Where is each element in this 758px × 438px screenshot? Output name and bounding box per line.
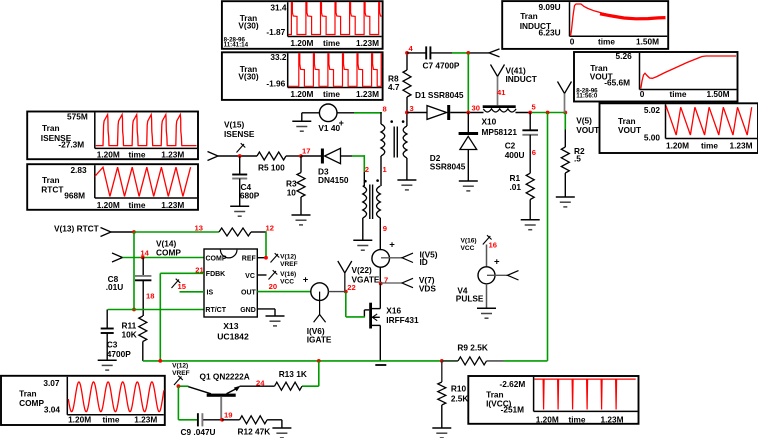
svg-text:Tran: Tran: [520, 11, 538, 21]
svg-text:VREF: VREF: [172, 370, 190, 377]
resistor node13-node12: [219, 228, 251, 236]
svg-text:VOUT: VOUT: [576, 125, 599, 135]
label V(14) COMP: [156, 238, 181, 257]
svg-text:1.23M: 1.23M: [161, 200, 184, 210]
svg-text:V(16): V(16): [280, 271, 296, 278]
svg-text:MP58121: MP58121: [482, 127, 518, 137]
svg-text:11:41:14: 11:41:14: [224, 42, 249, 49]
wire node 3 to D1: [407, 112, 427, 114]
svg-text:400U: 400U: [505, 150, 525, 160]
svg-text:6.23U: 6.23U: [538, 27, 560, 37]
svg-text:-1.87: -1.87: [266, 27, 285, 37]
node 19: [220, 410, 232, 421]
svg-text:0: 0: [570, 36, 575, 46]
wire node4 net down to node 30: [467, 53, 469, 113]
svg-text:2.83: 2.83: [70, 165, 87, 175]
svg-text:V(15): V(15): [224, 120, 245, 130]
capacitor C3: [101, 310, 114, 361]
wire I(V6) to node 22: [328, 291, 345, 293]
ground below R3: [292, 215, 311, 225]
svg-text:.01: .01: [510, 182, 522, 192]
bar below X16 source: [375, 364, 386, 366]
wire V1 to ground: [302, 113, 320, 122]
svg-text:IGATE: IGATE: [307, 334, 332, 344]
svg-text:DN4150: DN4150: [318, 175, 349, 185]
node 14: [140, 249, 149, 260]
label V1 40 +: [318, 118, 343, 133]
svg-text:COMP: COMP: [156, 247, 181, 257]
transformer lower left winding (node 2 to ground): [363, 186, 367, 218]
diode D3 DN4150: [321, 149, 324, 164]
label X13 UC1842: [217, 321, 249, 341]
svg-text:Q1 QN2222A: Q1 QN2222A: [200, 371, 250, 381]
capacitor C7: [407, 46, 452, 59]
svg-text:R10: R10: [451, 384, 467, 394]
svg-text:C2: C2: [505, 140, 516, 150]
scope inset Tran RTCT oscillator ramp plot: [27, 164, 198, 210]
wire R13 branch down: [302, 361, 319, 386]
svg-text:8: 8: [383, 105, 387, 114]
svg-text:IS: IS: [207, 290, 214, 297]
svg-text:+: +: [339, 118, 344, 128]
node 22: [344, 283, 356, 294]
probe arrow V(7) VDS: [381, 278, 413, 287]
scope inset Tran VOUT ripple plot: [600, 103, 758, 153]
svg-text:PULSE: PULSE: [456, 294, 484, 304]
capacitor C4: [232, 156, 247, 206]
node 17: [299, 147, 310, 158]
svg-text:VCC: VCC: [461, 245, 475, 252]
ground at V1 negative: [292, 121, 311, 131]
svg-text:SSR8045: SSR8045: [430, 162, 466, 172]
svg-text:16: 16: [489, 241, 497, 250]
capacitor C2: [522, 113, 538, 174]
scope inset Tran V(30) node 30 voltage plot (top): [222, 1, 383, 49]
svg-text:5.02: 5.02: [644, 105, 661, 115]
resistor R1: [526, 173, 534, 220]
svg-text:5.00: 5.00: [644, 133, 661, 143]
svg-text:UC1842: UC1842: [217, 332, 249, 342]
label X10 MP58121: [482, 117, 518, 138]
port V(14) COMP input connector: [112, 253, 123, 262]
wire VREF junction to Q1 collector: [178, 385, 188, 387]
probe marker VREF at Q1: [174, 376, 183, 385]
label V4 PULSE: [456, 285, 484, 303]
label C2 400U: [505, 140, 525, 160]
wire VREF node down to C9: [178, 386, 197, 420]
ground below C4: [230, 206, 249, 216]
probe antenna V(22) VGATE: [338, 261, 352, 292]
label V(41) INDUCT: [506, 66, 537, 84]
svg-text:1.23M: 1.23M: [134, 415, 157, 425]
svg-text:4.7: 4.7: [388, 82, 400, 92]
svg-text:.5: .5: [574, 153, 581, 163]
wire node 1: [380, 156, 382, 186]
wire node 7 to X16 drain: [379, 284, 381, 309]
transformer upper polarity dots: [390, 120, 404, 123]
junction R9/R10 divider: [440, 359, 444, 363]
svg-text:V(30): V(30): [238, 20, 259, 30]
scope inset Tran ISENSE current-sense plot: [27, 112, 198, 160]
junction FDBK rail: [158, 359, 162, 363]
svg-text:RTCT: RTCT: [41, 184, 63, 194]
label V(12) VREF at REF: [280, 253, 298, 268]
svg-text:-1.96: -1.96: [266, 78, 285, 88]
label C4 680P: [240, 182, 260, 201]
junction R13 branch: [317, 359, 321, 363]
resistor R10: [438, 361, 446, 428]
wire node 12 to REF: [251, 231, 266, 258]
svg-text:1.20M: 1.20M: [536, 414, 559, 424]
svg-text:V(12): V(12): [172, 363, 188, 370]
svg-text:9: 9: [383, 224, 387, 233]
wire V1 to node 8: [337, 112, 382, 124]
svg-text:D1 SSR8045: D1 SSR8045: [415, 90, 464, 100]
ground below R2: [556, 197, 575, 207]
wire VOUT net vertical to feedback divider: [547, 113, 549, 361]
label V(22) VGATE: [352, 265, 380, 284]
svg-text:1.50M: 1.50M: [706, 89, 729, 99]
svg-text:5.26: 5.26: [616, 51, 633, 61]
capacitor C9: [198, 413, 203, 426]
transformer upper core: [394, 127, 397, 158]
transformer lower polarity dots: [364, 179, 379, 182]
svg-text:1.23M: 1.23M: [356, 89, 379, 99]
wire X10 to node 5: [516, 112, 566, 114]
node 30: [466, 104, 480, 115]
ground below R10: [432, 428, 451, 438]
svg-text:1.23M: 1.23M: [161, 149, 184, 159]
wire node 22 to X16 gate: [346, 292, 365, 317]
svg-text:1.20M: 1.20M: [97, 149, 120, 159]
svg-text:1.20M: 1.20M: [290, 38, 313, 48]
svg-text:1.20M: 1.20M: [290, 89, 313, 99]
svg-text:30: 30: [472, 104, 480, 113]
svg-text:20: 20: [269, 282, 277, 291]
scope inset Tran COMP error-amp plot: [1, 376, 165, 425]
wire X16 source down: [379, 325, 381, 361]
svg-text:OUT: OUT: [241, 290, 257, 297]
wire R5 to node 17: [286, 155, 301, 157]
junction at REF pin: [264, 256, 268, 260]
resistor R5: [257, 152, 286, 160]
probe marker V(16) VCC at VC: [269, 270, 278, 279]
wire R9 to VOUT net: [504, 360, 548, 362]
resistor R2: [561, 113, 569, 197]
svg-text:ISENSE: ISENSE: [224, 129, 255, 139]
current probe I(V6): [303, 275, 329, 301]
wire C7 to offpage port: [452, 52, 489, 54]
transformer lower right winding (node 1 to node 9): [377, 186, 381, 218]
svg-text:VC: VC: [245, 273, 255, 280]
resistor R11: [139, 316, 147, 361]
wire D3 to node 2: [341, 155, 365, 186]
wire RTCT net vertical: [133, 232, 135, 310]
svg-text:22: 22: [347, 283, 355, 292]
label I(V6) IGATE: [307, 326, 332, 345]
offpage port at C7: [489, 49, 500, 57]
svg-text:time: time: [102, 415, 119, 425]
svg-text:R13 1K: R13 1K: [279, 369, 307, 379]
svg-text:1.50M: 1.50M: [636, 36, 659, 46]
svg-text:VDS: VDS: [419, 283, 437, 293]
svg-text:INDUCT: INDUCT: [506, 74, 537, 84]
wire ISENSE port to R5: [218, 155, 257, 157]
voltage source V4 PULSE: [478, 267, 495, 284]
svg-text:VREF: VREF: [280, 261, 298, 268]
probe marker V(12) VREF at REF: [271, 253, 280, 262]
svg-text:2.5K: 2.5K: [451, 394, 469, 404]
svg-text:+: +: [389, 239, 395, 250]
svg-text:1.20M: 1.20M: [68, 415, 91, 425]
scope inset Tran VOUT startup ramp plot: [574, 51, 738, 101]
current arrow of I(V6): [314, 292, 326, 323]
node 7: [379, 276, 388, 286]
svg-text:19: 19: [224, 410, 232, 419]
svg-text:V(13) RTCT: V(13) RTCT: [54, 224, 99, 234]
label V(16) VCC at V4: [461, 238, 477, 253]
scope inset Tran V(30) node 30 voltage plot (second): [222, 52, 383, 100]
resistor R13: [275, 382, 303, 390]
mosfet X16 IRFF431: [364, 303, 380, 329]
label V(12) VREF at Q1: [172, 363, 190, 378]
wire COMP port to COMP pin: [123, 257, 205, 259]
svg-text:1.20M: 1.20M: [666, 141, 689, 151]
svg-text:V(12): V(12): [280, 253, 296, 260]
label I(V5) ID: [420, 249, 438, 267]
wire feedback rail: [143, 360, 458, 362]
probe arrow I(V5) ID: [381, 253, 413, 262]
label D3 DN4150: [318, 166, 349, 185]
svg-text:1.23M: 1.23M: [600, 414, 623, 424]
label R10 2.5K: [451, 384, 469, 404]
svg-text:time: time: [598, 36, 615, 46]
svg-text:33.2: 33.2: [270, 52, 287, 62]
svg-text:-251M: -251M: [501, 405, 525, 415]
inductor X10 MP58121: [483, 105, 516, 108]
wire Q1 emitter to R13: [240, 385, 275, 387]
scope inset Tran I(VCC) supply current plot: [468, 376, 638, 424]
junction ISENSE/C4 node: [238, 154, 242, 158]
svg-text:1.20M: 1.20M: [97, 200, 120, 210]
svg-text:31.4: 31.4: [270, 2, 287, 12]
probe arrow at V4: [487, 271, 519, 280]
svg-text:-65.6M: -65.6M: [604, 78, 630, 88]
ground below V4: [477, 308, 496, 318]
svg-text:IRFF431: IRFF431: [386, 315, 419, 325]
resistor R9: [442, 357, 504, 365]
svg-text:FDBK: FDBK: [206, 271, 225, 278]
ground below C3: [98, 360, 117, 370]
scope inset Tran INDUCT current plot: [502, 1, 668, 49]
label V(15) ISENSE: [224, 120, 255, 140]
svg-text:C7 4700P: C7 4700P: [423, 61, 460, 71]
svg-text:.01U: .01U: [106, 282, 124, 292]
svg-text:R9 2.5K: R9 2.5K: [457, 343, 487, 353]
svg-text:time: time: [669, 89, 686, 99]
svg-text:VOUT: VOUT: [618, 125, 641, 135]
node 3: [405, 104, 414, 114]
svg-text:R5 100: R5 100: [258, 162, 285, 172]
svg-text:41: 41: [497, 88, 506, 97]
ground below lower left winding: [353, 240, 372, 250]
svg-text:3: 3: [410, 104, 414, 113]
port V(13) RTCT input connector: [101, 228, 112, 237]
svg-text:18: 18: [146, 292, 154, 301]
label R11 10K: [122, 321, 137, 340]
resistor R8: [403, 53, 411, 113]
capacitor C8: [135, 258, 151, 317]
wire RTCT junction to node 13: [134, 231, 219, 233]
svg-text:Tran: Tran: [19, 388, 37, 398]
wire RT/CT horizontal: [108, 309, 204, 311]
wire winding to node 3: [406, 113, 408, 127]
junction RT/CT net: [132, 308, 136, 312]
label D2 SSR8045: [430, 153, 466, 172]
svg-text:time: time: [128, 149, 145, 159]
wire GND pin to ground: [257, 309, 275, 316]
port V(15) ISENSE input connector: [208, 152, 219, 161]
label V(7) VDS: [419, 275, 437, 293]
label C8 .01U: [106, 274, 124, 292]
label V(5) VOUT: [576, 116, 599, 135]
wire D1 to node 30: [450, 112, 483, 114]
svg-text:10: 10: [287, 187, 297, 197]
junction VREF node: [177, 384, 181, 388]
svg-text:575M: 575M: [67, 112, 88, 122]
svg-text:R12 47K: R12 47K: [238, 426, 271, 436]
svg-text:VCC: VCC: [280, 279, 294, 286]
junction RTCT net: [132, 230, 136, 234]
wire I(V5) to node 7: [379, 267, 381, 283]
svg-text:ID: ID: [420, 257, 428, 267]
svg-text:C9 .047U: C9 .047U: [181, 427, 216, 437]
transformer lower core: [370, 185, 373, 220]
svg-text:X10: X10: [482, 117, 497, 127]
svg-text:time: time: [568, 414, 585, 424]
wire VC pin stub: [257, 274, 266, 276]
probe antenna V(41) INDUCT: [491, 65, 505, 106]
svg-text:Tran: Tran: [42, 123, 60, 133]
svg-text:10K: 10K: [122, 330, 137, 340]
wire OUT pin to I(V6): [257, 291, 311, 293]
transistor Q1 QN2222A: [188, 386, 240, 420]
svg-text:13: 13: [195, 224, 203, 233]
transformer upper right winding (node 3 to ground): [403, 126, 407, 158]
svg-text:968M: 968M: [64, 191, 85, 201]
label R1 .01: [510, 173, 522, 192]
svg-text:COMP: COMP: [19, 398, 44, 408]
wire node 9: [379, 218, 381, 250]
current source/probe I(V5): [372, 239, 395, 267]
svg-text:COMP: COMP: [206, 255, 227, 262]
ground below D2: [459, 181, 478, 191]
svg-text:time: time: [323, 38, 340, 48]
label R3 10: [286, 179, 297, 198]
wire RTCT port to junction: [111, 231, 134, 233]
svg-text:15: 15: [178, 282, 187, 291]
svg-text:4700P: 4700P: [107, 349, 131, 359]
label X16 IRFF431: [386, 306, 419, 325]
node 5: [528, 103, 567, 115]
junction node 4 net at C7 right: [466, 51, 470, 55]
svg-text:+: +: [494, 257, 500, 268]
svg-text:1.23M: 1.23M: [356, 38, 379, 48]
label R8 4.7: [388, 74, 400, 93]
svg-text:time: time: [701, 141, 718, 151]
node 4: [405, 44, 413, 55]
transformer upper left winding (node 8 to node 1): [381, 124, 385, 156]
node 15 marker and wire to IS pin: [172, 279, 205, 292]
svg-text:X13: X13: [223, 321, 239, 331]
svg-text:REF: REF: [242, 255, 257, 262]
svg-text:2: 2: [365, 165, 369, 174]
ground below R1: [521, 220, 540, 230]
probe marker V(15) at ISENSE node: [237, 143, 246, 152]
resistor R3: [297, 156, 305, 215]
svg-text:+: +: [303, 275, 309, 286]
probe marker VCC at V4: [483, 235, 492, 244]
op-amp/PWM IC X13 UC1842 body: [204, 249, 257, 317]
ground below upper right winding: [397, 180, 416, 190]
svg-text:1.23M: 1.23M: [729, 141, 752, 151]
svg-text:12: 12: [266, 224, 274, 233]
probe antenna V(5) VOUT: [558, 82, 572, 113]
svg-text:-2.62M: -2.62M: [499, 379, 525, 389]
svg-text:V(16): V(16): [461, 238, 477, 245]
svg-text:time: time: [128, 200, 145, 210]
resistor R12: [222, 416, 282, 428]
wire FDBK net: [160, 273, 204, 361]
svg-text:680P: 680P: [240, 191, 260, 201]
diode D1 SSR8045: [427, 106, 447, 120]
wire VCC to V4: [486, 245, 488, 267]
svg-text:V(30): V(30): [238, 71, 259, 81]
wire winding to ground node: [406, 158, 408, 180]
ground below R12: [272, 428, 291, 438]
svg-text:9.09U: 9.09U: [538, 2, 560, 12]
svg-text:0: 0: [640, 89, 645, 99]
voltage source V1: [319, 104, 337, 122]
label V(16) VCC at VC: [280, 271, 296, 286]
svg-text:time: time: [323, 89, 340, 99]
svg-text:6: 6: [532, 148, 536, 157]
svg-text:17: 17: [302, 147, 310, 156]
wire node 17 to D3: [301, 155, 321, 157]
label C3 4700P: [107, 340, 131, 359]
wire C9 to node 19: [203, 419, 222, 421]
label R2 .5: [574, 146, 585, 163]
ground at X13 GND pin: [266, 316, 285, 326]
svg-text:GND: GND: [240, 307, 256, 314]
svg-text:V1 40: V1 40: [318, 123, 340, 133]
svg-text:3.07: 3.07: [43, 378, 60, 388]
diode D2 SSR8045: [459, 113, 479, 181]
wire node2 winding to lower ground: [363, 186, 365, 240]
wire V4 to ground: [486, 284, 488, 309]
svg-text:RT/CT: RT/CT: [205, 307, 226, 314]
svg-text:11:56:0: 11:56:0: [576, 93, 598, 100]
svg-text:-27.3M: -27.3M: [58, 139, 84, 149]
svg-text:3.04: 3.04: [44, 404, 61, 414]
